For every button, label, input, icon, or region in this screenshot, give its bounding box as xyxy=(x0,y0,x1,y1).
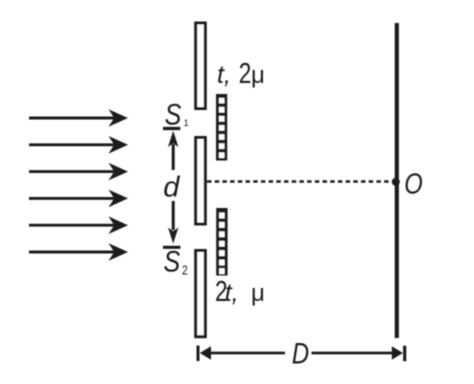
label O xyxy=(404,167,422,200)
D dimension right shaft xyxy=(312,352,395,355)
svg-text:S: S xyxy=(164,244,181,277)
label S1 xyxy=(165,98,189,131)
incident ray arrow 6 xyxy=(29,243,128,261)
svg-text:2: 2 xyxy=(239,56,252,89)
central axis dashed line xyxy=(207,180,391,183)
incident ray arrow 5 xyxy=(29,216,128,234)
label d xyxy=(163,172,180,204)
S2 tick bar xyxy=(163,246,180,249)
label D xyxy=(292,337,309,370)
label t, 2mu xyxy=(217,56,265,89)
d dimension up arrow xyxy=(168,131,178,170)
D dimension right tick xyxy=(403,346,406,362)
incident ray arrow 2 xyxy=(29,136,128,154)
D dimension left arrowhead xyxy=(200,346,211,360)
barrier bottom segment xyxy=(196,251,206,337)
D dimension left tick xyxy=(197,346,200,362)
svg-text:2: 2 xyxy=(182,263,188,277)
svg-text:S: S xyxy=(165,98,182,131)
barrier top segment xyxy=(196,23,206,109)
incident ray arrow 4 xyxy=(29,190,128,208)
d dimension down arrow xyxy=(168,201,178,244)
point O dot xyxy=(392,178,400,186)
svg-text:1: 1 xyxy=(184,118,189,128)
svg-text:μ: μ xyxy=(251,62,265,89)
barrier middle segment xyxy=(196,138,206,225)
svg-text:μ: μ xyxy=(251,280,265,307)
incident ray arrow 1 xyxy=(29,109,128,127)
D dimension right arrowhead xyxy=(392,346,403,360)
label S2 xyxy=(164,244,188,277)
svg-text:d: d xyxy=(163,172,180,204)
label 2t, mu xyxy=(215,274,265,307)
incident ray arrow 3 xyxy=(29,163,128,181)
D dimension left shaft xyxy=(209,352,285,355)
svg-text:O: O xyxy=(404,167,422,200)
screen line xyxy=(395,23,399,338)
svg-text:D: D xyxy=(292,337,309,370)
svg-text:t,: t, xyxy=(225,279,239,307)
S1 tick bar xyxy=(163,127,180,130)
slab 2t,mu body xyxy=(216,208,227,276)
slab t,2mu body xyxy=(216,94,227,161)
svg-text:t,: t, xyxy=(217,61,231,89)
